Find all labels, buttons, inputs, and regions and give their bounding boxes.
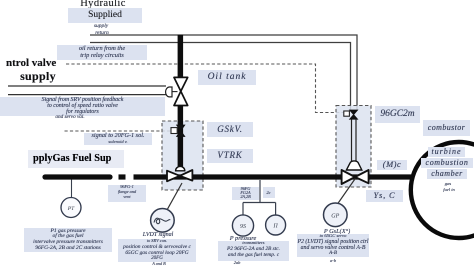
label hydraulic supply (top) <box>74 0 132 10</box>
label oil return note <box>57 45 147 61</box>
instrument bubble P1 (PT) <box>61 198 81 218</box>
label (M)c tag <box>377 160 407 170</box>
wire stub from main line to transmitters pair <box>243 180 276 215</box>
label Ys C tag <box>366 190 403 202</box>
label P1 transmitter note <box>24 228 112 252</box>
wire diagonal from SRV to P2 bubble <box>338 179 356 205</box>
wire hydraulic supply line 2 <box>90 43 351 111</box>
label combustor <box>423 120 470 136</box>
wire hydraulic supply line 1 <box>90 35 357 111</box>
label P2 note <box>315 228 359 235</box>
wire stem to P1 transmitter <box>71 180 73 198</box>
gas control valve GCV (left, on main line) <box>167 170 192 181</box>
pipe main gas fuel line segment 1 <box>45 174 110 179</box>
vent valve (hourglass) on vertical line <box>174 77 188 105</box>
label signal note (3 lines) <box>0 97 165 116</box>
instrument bubble LVDT (squiggle) <box>151 209 175 233</box>
label control valve supply (bold) <box>6 57 68 69</box>
svg-text:GP: GP <box>331 214 339 220</box>
actuator stem to vent valve <box>172 91 178 93</box>
pipe main gas fuel line segment 3 <box>134 174 412 179</box>
label VTRK <box>207 149 253 163</box>
instrument bubble 96FG-2B <box>266 215 286 235</box>
small pilot valve on right line <box>350 110 358 119</box>
solenoid coil square (left) <box>171 128 177 134</box>
wire diagonal from GCV to LVDT bubble <box>167 183 182 209</box>
solenoid coil square (right) <box>344 111 350 116</box>
instrument bubble P2 (GP) <box>324 203 348 227</box>
svg-text:Π: Π <box>272 224 278 230</box>
label oil tank <box>198 70 256 85</box>
turbine combustor circle <box>411 142 474 238</box>
label transmitters note <box>221 235 265 242</box>
actuator stem lines (right valve) <box>352 120 357 163</box>
wire dashed signal line to left solenoid <box>65 130 172 132</box>
pipe vertical gas line (thick, lower) <box>178 105 184 168</box>
label 96FG tag boxes <box>232 187 259 200</box>
dashed enclosure box around SRV assembly (right) <box>336 106 371 188</box>
label gas fuel supply (bold) <box>28 150 124 168</box>
label LVDT note <box>130 232 186 239</box>
label text inside combustor circle <box>428 147 465 157</box>
label flange note <box>108 185 146 202</box>
stop ratio valve SRV (right, on main line) <box>342 170 369 184</box>
svg-text:PT: PT <box>67 206 75 212</box>
label trip oil (small italics) <box>86 23 116 29</box>
instrument bubble 96FG-2A <box>232 215 253 236</box>
svg-text:9S: 9S <box>240 224 246 230</box>
label 96GC tag <box>375 106 420 123</box>
actuator cone above right control valve <box>346 161 361 170</box>
label signal to solenoid <box>84 133 152 145</box>
pipe main gas fuel line short segment (flange break) <box>119 174 126 179</box>
pipe vertical gas line (thick, upper) <box>178 35 184 79</box>
actuator cylinder cap <box>166 87 172 97</box>
solenoid valve on left gas line <box>177 125 185 137</box>
actuator cylinder lines of vent valve <box>8 86 166 95</box>
dashed enclosure box around GCV assembly (left) <box>162 121 203 190</box>
dome atop left control valve <box>176 166 185 170</box>
wire dashed trip-oil line to right solenoid <box>66 64 344 113</box>
label GSkV <box>207 122 253 137</box>
